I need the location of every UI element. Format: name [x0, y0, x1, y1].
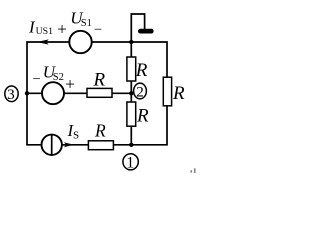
svg-text:−: − — [33, 72, 41, 88]
svg-text:3: 3 — [7, 86, 15, 103]
svg-text:−: − — [94, 22, 102, 38]
svg-text:+: + — [57, 20, 67, 39]
svg-text:R: R — [136, 106, 149, 127]
svg-text:R: R — [172, 83, 185, 104]
svg-text:S: S — [73, 130, 79, 142]
svg-text:1: 1 — [126, 154, 134, 171]
svg-text:2: 2 — [136, 83, 144, 100]
svg-text:S1: S1 — [81, 18, 92, 29]
svg-text:R: R — [93, 69, 106, 90]
svg-text:US1: US1 — [36, 26, 54, 37]
svg-text:S2: S2 — [53, 72, 64, 83]
svg-text:R: R — [135, 60, 148, 81]
svg-text:+: + — [65, 75, 75, 94]
svg-text:R: R — [94, 120, 106, 140]
